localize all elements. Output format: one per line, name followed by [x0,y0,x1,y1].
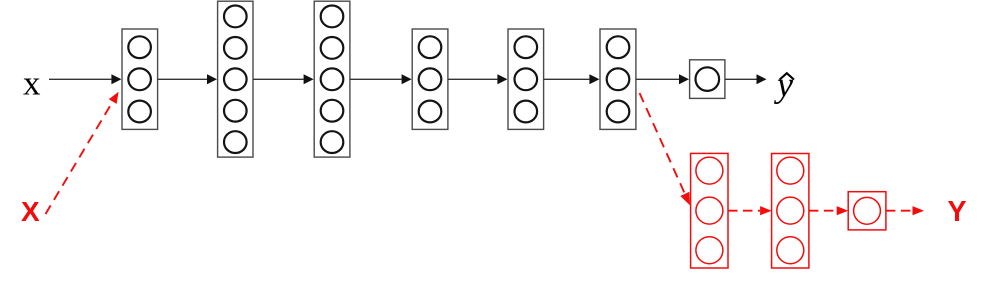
neuron L5.3 [515,101,538,123]
neuron R1.2 [696,197,723,224]
neuron L3.2 [321,37,344,59]
neuron R2.2 [777,197,804,224]
wire L2 to L3 [253,74,314,84]
neuron L1.1 [128,36,151,58]
wire L6 to R1 (red dashed) [640,93,691,205]
neuron L2.5 [224,131,247,153]
neuron L2.3 [224,68,247,90]
neuron L3.3 [321,68,344,90]
neuron L2.2 [224,37,247,59]
neuron R2.1 [777,157,804,184]
neuron Rout.1 [854,197,881,224]
wire R2 to red box (red dashed) [809,206,848,215]
wire L6 to output box [636,74,689,84]
layer L6 box [600,29,636,129]
neuron L3.5 [321,131,344,153]
neuron L1.2 [128,68,151,90]
neuron L4.1 [419,36,442,58]
layer R2 box [772,154,809,269]
neuron L3.1 [321,6,344,28]
label y-hat circumflex [780,73,794,79]
wire x to L1 [49,74,121,84]
wire L3 to L4 [350,74,412,84]
neuron L3.4 [321,100,344,122]
wire L5 to L6 [544,74,600,84]
layer L4 box [412,29,448,129]
neuron L2.4 [224,100,247,122]
neuron out.1 [696,67,720,91]
layer L2 box [218,1,253,157]
layer L1 box [122,29,158,129]
svg-text:y: y [774,65,793,105]
neuron L6.3 [607,101,630,123]
wire X to L1 (red dashed) [46,92,119,214]
wire L1 to L2 [158,74,217,84]
wire red box to Y (red dashed) [886,206,924,215]
neuron L2.1 [224,6,247,28]
wire box to y-hat [725,74,767,84]
layer R1 box [691,153,728,268]
neuron L6.2 [607,68,630,90]
layer L5 box [508,29,544,129]
neuron R2.3 [777,237,804,264]
red output box (Y unit) [848,192,886,230]
neuron L4.2 [419,68,442,90]
neuron R1.1 [696,157,723,184]
neuron L5.2 [515,68,538,90]
output box (y-hat unit) [690,60,725,99]
neuron R1.3 [696,237,723,264]
wire L4 to L5 [448,74,508,84]
layer L3 box [314,1,350,157]
svg-text:Y: Y [948,196,967,228]
neuron L4.3 [419,101,442,123]
svg-text:x: x [23,64,41,103]
svg-text:X: X [21,196,40,227]
wire R1 to R2 (red dashed) [728,206,772,215]
neuron L1.3 [128,101,151,123]
neuron L5.1 [515,36,538,58]
neuron L6.1 [607,36,630,58]
